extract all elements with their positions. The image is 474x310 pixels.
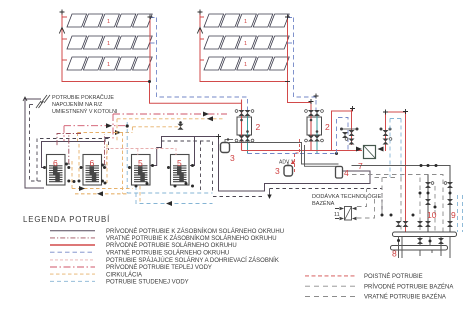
svg-text:1: 1 (244, 41, 247, 47)
legend captions (106, 228, 284, 286)
connecting pipe tanks (pink dashed) (105, 149, 177, 168)
circulation arrows bottom (79, 186, 85, 191)
svg-text:LEGENDA POTRUBÍ: LEGENDA POTRUBÍ (23, 215, 110, 224)
svg-text:POTRUBIE SPÁJAJÚCE SOLÁRNY A D: POTRUBIE SPÁJAJÚCE SOLÁRNY A DOHRIEVACÍ … (106, 257, 279, 264)
port stubs (45, 164, 171, 168)
cold water loop bottom (cyan dashed) (127, 186, 212, 204)
svg-text:VRATNÉ POTRUBIE BAZÉNA: VRATNÉ POTRUBIE BAZÉNA (364, 294, 446, 301)
svg-text:1: 1 (107, 19, 110, 25)
right legend sample lines (305, 275, 356, 277)
svg-text:4: 4 (344, 168, 349, 178)
svg-text:5: 5 (177, 158, 182, 168)
svg-text:UMIESTNENÝ V KOTOLNI: UMIESTNENÝ V KOTOLNI (52, 108, 118, 115)
solar return pipe field 1 (blue dashed) (150, 18, 248, 114)
svg-text:BAZÉNA: BAZÉNA (312, 200, 335, 207)
corner ticks (350, 106, 408, 115)
flow direction chevrons on field risers (59, 28, 202, 34)
svg-text:1: 1 (244, 19, 247, 25)
tank port dots (43, 163, 194, 188)
hot water flow arrows (203, 112, 209, 117)
svg-text:9: 9 (451, 210, 456, 220)
svg-text:ADV 1: ADV 1 (279, 160, 294, 166)
pipe-continues note text (52, 94, 118, 115)
riser valves (381, 164, 454, 227)
svg-text:DODÁVKA TECHNOLÓGIE: DODÁVKA TECHNOLÓGIE (312, 193, 381, 200)
svg-text:11: 11 (334, 212, 340, 218)
reheating tank 5 (no.1) (132, 155, 151, 186)
pool filter vessel 4 (336, 167, 343, 179)
solar return pipe field 2 (blue dashed) (288, 18, 317, 114)
corner tick marks (60, 10, 319, 105)
pool heat exchanger 7 (364, 146, 376, 159)
right legend captions (364, 273, 453, 301)
svg-text:NAPOJENÍM NA R/Z: NAPOJENÍM NA R/Z (52, 101, 103, 108)
circulation flow arrow (207, 116, 213, 121)
pool tech delivery text (312, 193, 381, 207)
distribution manifold top (8) (393, 232, 457, 237)
red loop at field 2 down-feed (332, 109, 406, 234)
svg-text:PRÍVODNÉ POTRUBIE K ZÁSOBNÍKOM: PRÍVODNÉ POTRUBIE K ZÁSOBNÍKOM SOLÁRNEHO… (106, 228, 284, 235)
solar storage tank 6 (no.2) (83, 155, 102, 186)
svg-text:POTRUBIE POKRAČUJE: POTRUBIE POKRAČUJE (52, 94, 114, 101)
svg-text:PRÍVODNÉ POTRUBIE TEPLEJ VODY: PRÍVODNÉ POTRUBIE TEPLEJ VODY (106, 264, 212, 271)
break symbol // on solid line (41, 95, 50, 103)
return pipe to tanks (maroon dash-dot) (57, 134, 105, 166)
down arrow end of dashed run (267, 195, 271, 200)
svg-text:POISTNÉ POTRUBIE: POISTNÉ POTRUBIE (364, 273, 423, 280)
solar collector field 2 (3 rows x 5 panels) (204, 14, 289, 70)
solar supply pipe field 1 (red) (62, 12, 242, 113)
pool return dashed loop (gray) (352, 175, 443, 233)
svg-text:3: 3 (230, 153, 235, 163)
solar supply pipe field 2 (red) (200, 12, 311, 113)
solar supply main to exchanger (red) (242, 150, 363, 152)
solar storage tank 6 (no.1) (47, 155, 66, 186)
svg-text:CIRKULÁCIA: CIRKULÁCIA (106, 271, 142, 278)
hot water supply line (red dash-dot) upper (64, 114, 227, 141)
pump group 2 (right) (305, 110, 324, 154)
blue corner at field 2 down-feed (337, 118, 349, 154)
tank-loop supply main (gray) to pool exchanger (229, 143, 342, 167)
dark dashed pool supply run (270, 189, 383, 216)
pump group 2 (left) (235, 100, 254, 154)
boiler-room riser dashed (dark) with break symbol (30, 105, 45, 182)
svg-text:1: 1 (107, 62, 110, 68)
boiler-room riser solid (dark) with break symbol (25, 98, 44, 188)
safety pipe (red dashed) to ADV (295, 139, 300, 172)
dark dashed loop around tanks 6 (37, 139, 109, 182)
junction node dot (126, 124, 129, 127)
junction dot field 1 bottom (148, 80, 151, 83)
valve cluster left of exchanger (340, 128, 359, 145)
cold water arrow (166, 201, 172, 206)
pool supply solid (dark) (352, 166, 451, 233)
manifold interconnects and drops (399, 237, 451, 259)
svg-text:2: 2 (256, 122, 261, 132)
supply header to solar tanks (dark solid) (42, 138, 111, 168)
orange circulation drops to tanks (72, 144, 140, 204)
svg-text:1: 1 (107, 41, 110, 47)
gray dashed stubs from dosing unit (357, 189, 375, 219)
expansion vessel 3 (left) (221, 143, 230, 153)
svg-text:POTRUBIE STUDENEJ VODY: POTRUBIE STUDENEJ VODY (106, 280, 189, 286)
legend sample lines (50, 230, 95, 232)
arrow tick top of riser (23, 97, 27, 101)
svg-text:PRÍVODNÉ POTRUBIE SOLÁRNEHO OK: PRÍVODNÉ POTRUBIE SOLÁRNEHO OKRUHU (106, 242, 237, 249)
svg-text:PRÍVODNÉ POTRUBIE BAZÉNA: PRÍVODNÉ POTRUBIE BAZÉNA (364, 283, 453, 290)
break symbol // on dashed line (36, 101, 44, 108)
svg-text:2: 2 (325, 122, 330, 132)
cold water line (cyan dashed) drop (126, 122, 128, 193)
svg-text:6: 6 (90, 158, 95, 168)
solar collector field 1 (3 rows x 5 panels) (67, 14, 152, 70)
collector row labels 1 (244, 19, 247, 68)
collector row labels 1 (107, 19, 110, 68)
corner tick on dark feed (216, 134, 221, 139)
svg-text:VRATNÉ POTRUBIE K ZÁSOBNÍKOM S: VRATNÉ POTRUBIE K ZÁSOBNÍKOM SOLÁRNEHO O… (106, 235, 277, 242)
reheating tank 5 (no.2) (171, 155, 190, 186)
valve cluster right of exchanger (380, 128, 392, 145)
pool dosing unit 11 (334, 207, 357, 221)
dark solid feed line over tanks 5 (150, 137, 370, 192)
svg-text:6: 6 (53, 158, 58, 168)
dark dashed loop around tanks 5 (161, 141, 263, 197)
valve on circulation branch (178, 124, 184, 130)
svg-text:1: 1 (244, 62, 247, 68)
cold/softened water feeds (cyan dashed) (390, 119, 463, 233)
svg-text:10: 10 (427, 210, 437, 220)
svg-text:3: 3 (275, 166, 280, 176)
svg-text:5: 5 (138, 158, 143, 168)
expansion vessel 3 (ADV) (284, 166, 293, 177)
flow arrows into exchanger (356, 147, 362, 152)
solar return main from exchanger (blue dashed) (248, 153, 337, 155)
distribution manifold bottom (8) (391, 246, 448, 251)
svg-text:8: 8 (392, 249, 397, 259)
circulation line (orange dashed) (75, 119, 223, 194)
svg-text:VRATNÉ POTRUBIE SOLÁRNEHO OKRU: VRATNÉ POTRUBIE SOLÁRNEHO OKRUHU (106, 249, 229, 256)
